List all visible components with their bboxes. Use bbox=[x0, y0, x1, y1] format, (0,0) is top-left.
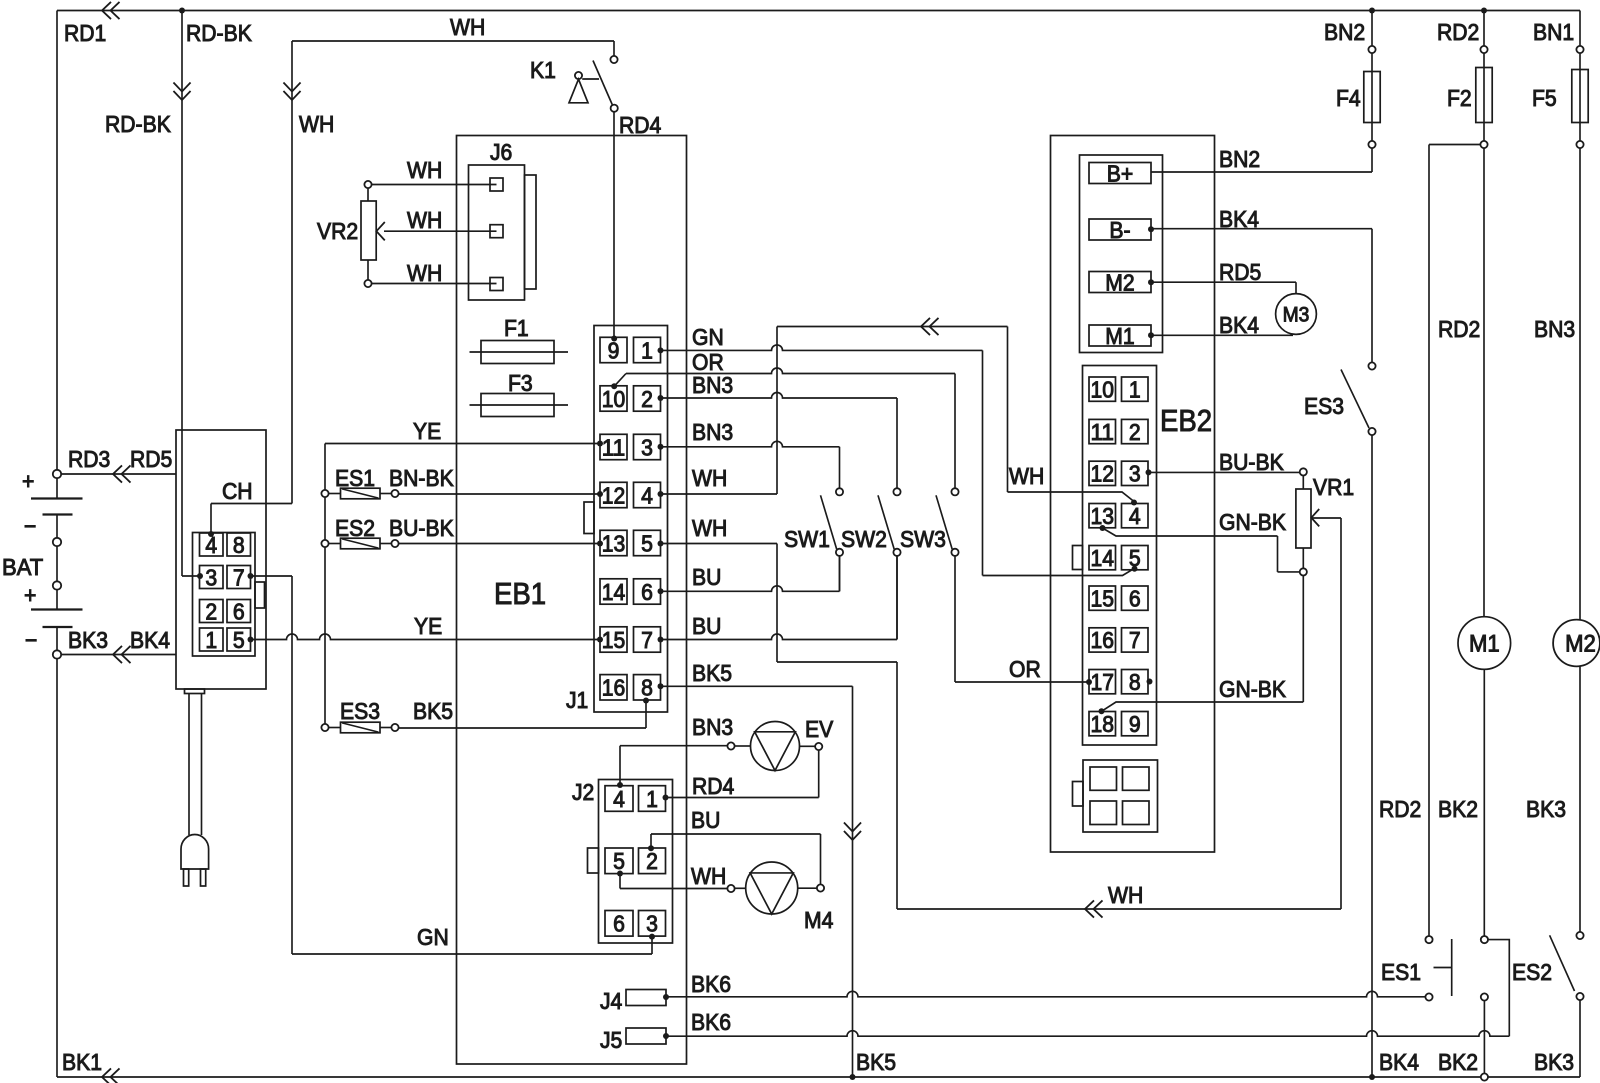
svg-text:12: 12 bbox=[1091, 461, 1115, 487]
svg-text:BU: BU bbox=[692, 613, 721, 639]
svg-text:YE: YE bbox=[414, 613, 442, 639]
svg-text:BK6: BK6 bbox=[691, 1009, 731, 1035]
svg-text:RD2: RD2 bbox=[1438, 316, 1480, 342]
svg-text:11: 11 bbox=[1091, 419, 1115, 445]
svg-text:BK4: BK4 bbox=[1219, 312, 1259, 338]
svg-text:B-: B- bbox=[1109, 217, 1130, 243]
svg-text:J6: J6 bbox=[490, 139, 512, 165]
svg-text:−: − bbox=[24, 513, 36, 539]
svg-text:GN-BK: GN-BK bbox=[1219, 509, 1287, 535]
svg-text:SW2: SW2 bbox=[841, 526, 887, 552]
svg-text:4: 4 bbox=[1129, 503, 1141, 529]
svg-text:BAT: BAT bbox=[2, 554, 43, 580]
svg-text:RD1: RD1 bbox=[64, 20, 106, 46]
svg-text:6: 6 bbox=[233, 598, 245, 624]
svg-text:F2: F2 bbox=[1447, 85, 1472, 111]
svg-text:SW1: SW1 bbox=[784, 526, 830, 552]
svg-text:EB2: EB2 bbox=[1160, 403, 1212, 438]
svg-text:F5: F5 bbox=[1532, 85, 1557, 111]
svg-text:4: 4 bbox=[613, 786, 625, 812]
svg-text:M1: M1 bbox=[1105, 323, 1134, 349]
svg-text:17: 17 bbox=[1091, 669, 1115, 695]
svg-text:2: 2 bbox=[646, 848, 658, 874]
svg-text:BN3: BN3 bbox=[692, 714, 733, 740]
svg-text:BK4: BK4 bbox=[1219, 206, 1259, 232]
svg-text:15: 15 bbox=[1091, 585, 1115, 611]
svg-text:WH: WH bbox=[407, 207, 442, 233]
svg-text:BK3: BK3 bbox=[1534, 1049, 1574, 1075]
svg-text:ES1: ES1 bbox=[335, 465, 375, 491]
svg-text:BN3: BN3 bbox=[692, 419, 733, 445]
svg-text:ES2: ES2 bbox=[1512, 959, 1552, 985]
svg-text:RD4: RD4 bbox=[619, 112, 661, 138]
svg-text:BK5: BK5 bbox=[692, 660, 732, 686]
svg-text:10: 10 bbox=[1091, 376, 1115, 402]
svg-text:16: 16 bbox=[602, 675, 626, 701]
svg-text:M1: M1 bbox=[1469, 631, 1500, 658]
svg-text:9: 9 bbox=[608, 337, 620, 363]
svg-text:F1: F1 bbox=[504, 315, 529, 341]
svg-text:3: 3 bbox=[1129, 461, 1141, 487]
svg-text:BK4: BK4 bbox=[1379, 1049, 1419, 1075]
svg-text:RD2: RD2 bbox=[1437, 19, 1479, 45]
svg-text:WH: WH bbox=[692, 465, 727, 491]
svg-text:3: 3 bbox=[641, 434, 653, 460]
svg-text:5: 5 bbox=[1129, 545, 1141, 571]
svg-text:SW3: SW3 bbox=[900, 526, 946, 552]
svg-text:YE: YE bbox=[413, 418, 441, 444]
svg-text:BK2: BK2 bbox=[1438, 796, 1478, 822]
svg-text:RD-BK: RD-BK bbox=[186, 20, 252, 46]
svg-text:2: 2 bbox=[205, 598, 217, 624]
svg-text:1: 1 bbox=[646, 786, 658, 812]
svg-text:BN2: BN2 bbox=[1324, 19, 1365, 45]
svg-text:M4: M4 bbox=[804, 907, 834, 933]
svg-text:RD-BK: RD-BK bbox=[105, 111, 171, 137]
svg-text:7: 7 bbox=[1129, 627, 1141, 653]
svg-text:+: + bbox=[22, 468, 34, 494]
svg-text:14: 14 bbox=[602, 579, 626, 605]
svg-text:BU-BK: BU-BK bbox=[389, 515, 454, 541]
svg-text:BN3: BN3 bbox=[1534, 316, 1575, 342]
svg-text:9: 9 bbox=[1129, 711, 1141, 737]
svg-text:GN-BK: GN-BK bbox=[1219, 676, 1287, 702]
svg-text:K1: K1 bbox=[530, 57, 556, 83]
svg-text:BK4: BK4 bbox=[130, 627, 170, 653]
svg-text:8: 8 bbox=[641, 675, 653, 701]
svg-text:4: 4 bbox=[641, 482, 653, 508]
svg-text:M3: M3 bbox=[1283, 304, 1310, 327]
svg-text:BN3: BN3 bbox=[692, 372, 733, 398]
svg-text:WH: WH bbox=[407, 260, 442, 286]
svg-text:8: 8 bbox=[1129, 669, 1141, 695]
svg-text:BU: BU bbox=[691, 807, 720, 833]
svg-text:GN: GN bbox=[692, 324, 724, 350]
svg-text:BK3: BK3 bbox=[1526, 796, 1566, 822]
svg-text:RD3: RD3 bbox=[68, 446, 110, 472]
svg-text:M2: M2 bbox=[1565, 631, 1596, 658]
svg-text:BK6: BK6 bbox=[691, 971, 731, 997]
svg-text:WH: WH bbox=[450, 14, 485, 40]
svg-text:RD5: RD5 bbox=[130, 446, 172, 472]
svg-text:8: 8 bbox=[233, 532, 245, 558]
svg-text:OR: OR bbox=[1009, 656, 1041, 682]
svg-text:6: 6 bbox=[613, 911, 625, 937]
svg-text:16: 16 bbox=[1091, 627, 1115, 653]
svg-text:4: 4 bbox=[205, 532, 217, 558]
svg-text:10: 10 bbox=[602, 386, 626, 412]
svg-text:F3: F3 bbox=[508, 370, 533, 396]
svg-text:2: 2 bbox=[1129, 419, 1141, 445]
svg-text:RD4: RD4 bbox=[692, 773, 734, 799]
svg-text:GN: GN bbox=[417, 924, 449, 950]
svg-text:BK5: BK5 bbox=[413, 698, 453, 724]
svg-text:B+: B+ bbox=[1107, 160, 1134, 186]
svg-text:BU-BK: BU-BK bbox=[1219, 449, 1284, 475]
svg-text:3: 3 bbox=[646, 911, 658, 937]
svg-text:ES1: ES1 bbox=[1381, 959, 1421, 985]
svg-text:WH: WH bbox=[692, 515, 727, 541]
svg-text:J2: J2 bbox=[572, 779, 594, 805]
svg-text:14: 14 bbox=[1091, 545, 1115, 571]
svg-text:ES3: ES3 bbox=[1304, 393, 1344, 419]
svg-text:J4: J4 bbox=[600, 988, 622, 1014]
svg-text:BU: BU bbox=[692, 564, 721, 590]
svg-text:WH: WH bbox=[1009, 463, 1044, 489]
svg-text:J5: J5 bbox=[600, 1027, 622, 1053]
svg-text:13: 13 bbox=[602, 530, 626, 556]
svg-text:M2: M2 bbox=[1105, 269, 1134, 295]
svg-text:1: 1 bbox=[1129, 376, 1141, 402]
svg-text:6: 6 bbox=[641, 579, 653, 605]
svg-text:18: 18 bbox=[1091, 711, 1115, 737]
svg-text:2: 2 bbox=[641, 386, 653, 412]
svg-text:ES3: ES3 bbox=[340, 698, 380, 724]
svg-text:VR1: VR1 bbox=[1313, 474, 1354, 500]
svg-text:BN1: BN1 bbox=[1533, 19, 1574, 45]
svg-text:WH: WH bbox=[299, 111, 334, 137]
svg-text:7: 7 bbox=[233, 564, 245, 590]
svg-text:5: 5 bbox=[613, 848, 625, 874]
svg-text:EB1: EB1 bbox=[494, 576, 546, 611]
svg-text:EV: EV bbox=[805, 716, 834, 742]
svg-text:6: 6 bbox=[1129, 585, 1141, 611]
svg-text:1: 1 bbox=[205, 627, 217, 653]
svg-text:BK3: BK3 bbox=[68, 627, 108, 653]
svg-text:CH: CH bbox=[222, 478, 253, 504]
svg-text:J1: J1 bbox=[566, 687, 588, 713]
svg-text:12: 12 bbox=[602, 482, 626, 508]
svg-text:BK5: BK5 bbox=[856, 1049, 896, 1075]
svg-text:11: 11 bbox=[602, 434, 626, 460]
svg-text:3: 3 bbox=[205, 564, 217, 590]
svg-text:VR2: VR2 bbox=[317, 218, 358, 244]
svg-text:1: 1 bbox=[641, 337, 653, 363]
svg-text:WH: WH bbox=[407, 157, 442, 183]
svg-text:F4: F4 bbox=[1336, 85, 1361, 111]
svg-text:BN-BK: BN-BK bbox=[389, 465, 454, 491]
svg-text:RD5: RD5 bbox=[1219, 259, 1261, 285]
svg-text:RD2: RD2 bbox=[1379, 796, 1421, 822]
svg-text:+: + bbox=[24, 582, 36, 608]
svg-text:5: 5 bbox=[233, 627, 245, 653]
svg-text:5: 5 bbox=[641, 530, 653, 556]
svg-text:BN2: BN2 bbox=[1219, 146, 1260, 172]
svg-text:15: 15 bbox=[602, 627, 626, 653]
svg-text:WH: WH bbox=[1108, 882, 1143, 908]
svg-text:−: − bbox=[25, 627, 37, 653]
svg-text:ES2: ES2 bbox=[335, 515, 375, 541]
svg-text:BK1: BK1 bbox=[62, 1049, 102, 1075]
svg-text:BK2: BK2 bbox=[1438, 1049, 1478, 1075]
svg-text:7: 7 bbox=[641, 627, 653, 653]
svg-text:WH: WH bbox=[691, 863, 726, 889]
